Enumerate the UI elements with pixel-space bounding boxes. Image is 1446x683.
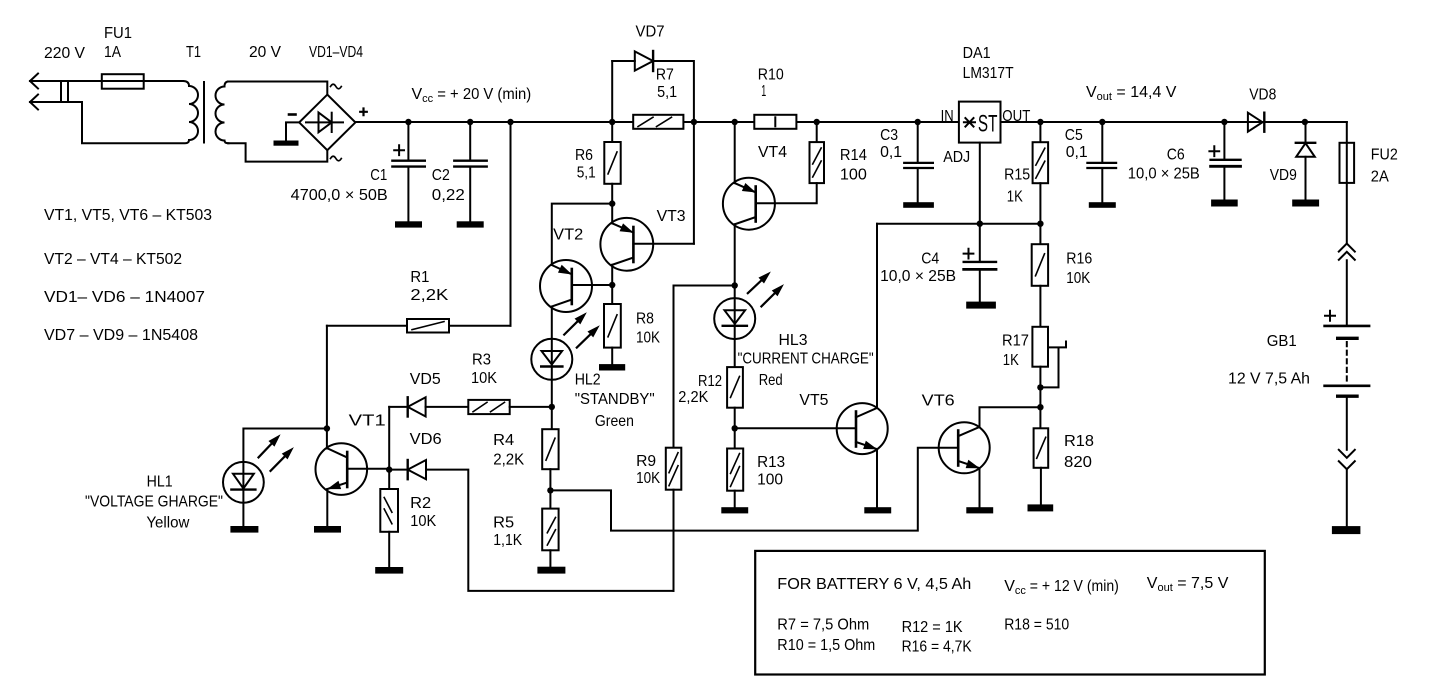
diode VD6 [408,460,426,479]
wire: R14 top lead [816,122,818,142]
svg-text:VD7 – VD9 – 1N5408: VD7 – VD9 – 1N5408 [44,327,198,344]
svg-text:IN: IN [941,108,954,125]
fuse FU2 [1340,143,1355,183]
wire: VD5-VD6 vertical [388,407,390,470]
capacitor C1 [407,122,409,160]
resistor R13 [734,428,736,448]
svg-text:1A: 1A [104,44,121,61]
wire: R8 bottom lead [611,348,613,366]
svg-text:OUT: OUT [1002,108,1030,125]
capacitor C3 [917,122,919,162]
resistor R8 [604,304,621,348]
transistor VT2 [540,260,612,339]
diode VD5 [408,397,426,416]
svg-text:10K: 10K [410,513,436,530]
svg-text:100: 100 [840,167,867,184]
svg-text:10,0 × 25B: 10,0 × 25B [1128,166,1200,183]
node R1/VT1/HL1 [324,425,330,431]
note box [755,551,1265,675]
ground C6 [1212,201,1237,206]
svg-text:R13: R13 [757,454,785,471]
svg-text:VD1– VD6 – 1N4007: VD1– VD6 – 1N4007 [44,289,205,306]
svg-text:R6: R6 [575,147,593,164]
ground bridge [275,142,298,145]
resistor R3 [468,400,509,414]
capacitor C6 [1223,122,1225,159]
svg-text:R17: R17 [1002,332,1029,349]
capacitor C5 [1101,122,1103,162]
resistor R7 [633,115,683,129]
ground HL1 [231,527,257,532]
fuse FU1 [102,74,144,89]
svg-text:R7 = 7,5 Ohm: R7 = 7,5 Ohm [777,617,869,634]
wire: R12 bottom lead [734,408,736,429]
wire: rail corner down to FU2 [1346,122,1348,244]
svg-text:FU1: FU1 [104,25,132,42]
regulator DA1 LM317T [959,102,1001,143]
transformer T1 primary winding [183,81,198,143]
wire: R3 to node [510,406,552,408]
node C3 [915,119,921,125]
svg-text:R14: R14 [840,147,867,164]
node R14 [814,119,820,125]
node R6/VD7 [609,119,615,125]
led HL2 [531,314,598,407]
svg-text:10,0 × 25B: 10,0 × 25B [880,268,956,285]
svg-text:10K: 10K [1066,270,1090,287]
ground C2 [458,222,483,226]
arrow mains top [30,74,38,89]
node HL2/R3/R4 [549,404,555,410]
svg-text:Red: Red [759,372,783,389]
svg-text:VD5: VD5 [410,371,441,388]
svg-text:T1: T1 [186,44,201,61]
svg-text:100: 100 [757,472,783,489]
wire: battery minus to ground [1346,469,1348,527]
ground GB1 [1333,527,1360,533]
wire: VT3 base riser [693,122,695,244]
node R7/VD7 right [691,119,697,125]
svg-text:"CURRENT CHARGE": "CURRENT CHARGE" [738,351,874,368]
node VT4 collector / HL3 / R9 branch [732,282,738,288]
svg-text:Yellow: Yellow [146,515,189,532]
svg-text:R1: R1 [410,269,429,286]
svg-text:C2: C2 [432,167,450,184]
node VT2/VT3 emitters [609,200,615,206]
svg-text:HL2: HL2 [575,372,601,389]
wire: R6 bottom lead [611,184,613,204]
wire: R1 right lead [449,325,511,327]
wire: VD5 row [389,406,408,408]
wire: +Vcc rail [355,121,1346,123]
resistor R15 [1039,122,1041,142]
svg-text:"STANDBY": "STANDBY" [575,391,655,408]
resistor R16 [1039,224,1041,245]
svg-text:ADJ: ADJ [943,149,970,166]
svg-text:VT5: VT5 [799,392,828,409]
svg-text:R18 = 510: R18 = 510 [1004,617,1069,634]
ground R2 [376,568,402,573]
svg-text:0,1: 0,1 [880,144,902,161]
node VT6 collector [1037,404,1043,410]
wire: R8 top lead [611,285,613,304]
wire: R17 bottom lead [1039,367,1041,429]
node R4/R5 [547,487,553,493]
wire: mains bottom lead [30,102,183,143]
svg-text:R7: R7 [656,67,674,84]
wire: VD7 branch left [611,61,613,122]
svg-text:10K: 10K [471,370,497,387]
ground C5 [1090,203,1115,207]
transistor VT5 [837,403,888,508]
svg-text:R12 = 1K: R12 = 1K [902,619,963,636]
transformer T1 core [203,82,205,143]
connector chevrons bottom [1339,450,1355,469]
node C6 [1221,119,1227,125]
wire: node to VT5 base [735,427,856,429]
node ADJ/R15/R16 [1037,221,1043,227]
node C2 [467,119,473,125]
wire: mains top lead [30,80,183,82]
svg-text:1K: 1K [1003,352,1019,369]
wire: VD6 right to bottom rail [426,470,674,591]
ac mark bottom [331,156,342,161]
svg-text:R9: R9 [636,453,656,470]
ac mark top [331,84,342,89]
svg-text:R3: R3 [472,352,491,369]
svg-text:10K: 10K [636,470,660,487]
arrow mains bottom [30,95,38,110]
wire: emitter node to VT2 [552,204,612,265]
ground R8 [600,365,624,369]
node ADJ/C4 [977,221,983,227]
minus sign [289,113,296,116]
bridge rectifier VD1-VD4 [299,95,355,151]
trimmer resistor R17 [1032,327,1066,388]
svg-text:ST: ST [978,110,998,137]
ground C4 [967,303,995,308]
ground C3 [904,203,933,207]
svg-text:VD1–VD4: VD1–VD4 [309,44,363,61]
svg-text:C6: C6 [1167,147,1185,164]
wire: VD5 to R3 [426,406,469,408]
svg-text:R2: R2 [410,495,431,512]
wire: rail down to R1 [510,122,512,326]
svg-text:220 V: 220 V [44,45,85,62]
wire: VT5 collector riser [876,224,878,408]
svg-text:R10 = 1,5 Ohm: R10 = 1,5 Ohm [777,637,875,654]
svg-text:R15: R15 [1004,167,1030,184]
transistor VT3 [600,218,694,285]
svg-text:5,1: 5,1 [577,165,596,182]
node VT4 emitter [732,119,738,125]
svg-text:Green: Green [595,413,634,430]
svg-text:R8: R8 [636,310,654,327]
svg-text:10K: 10K [636,330,660,347]
wire: VT3 emitter lead [611,204,613,224]
diode VD9 [1296,122,1315,201]
svg-text:R5: R5 [493,514,514,531]
wire: R1 left lead [327,325,407,327]
svg-text:VD7: VD7 [636,23,665,40]
wire: R4/R5 node to VT6 base [550,448,958,531]
svg-text:VT1: VT1 [349,413,386,430]
wire: ADJ node rail [877,223,1040,225]
resistor R14 [810,142,825,183]
svg-text:12 V 7,5 Ah: 12 V 7,5 Ah [1228,371,1310,388]
ground R18 [1029,505,1053,510]
svg-text:FU2: FU2 [1371,147,1398,164]
transformer T1 secondary winding [216,82,229,144]
svg-text:DA1: DA1 [963,45,991,62]
wire: R1 to VT1 collector [326,326,328,449]
svg-text:VT1, VT5, VT6 – KT503: VT1, VT5, VT6 – KT503 [44,207,212,224]
svg-text:"VOLTAGE GHARGE": "VOLTAGE GHARGE" [85,494,223,511]
svg-text:VT4: VT4 [758,144,787,161]
transistor VT6 [939,422,990,508]
svg-text:C5: C5 [1065,127,1083,144]
ground VT1 [315,527,340,532]
svg-text:HL3: HL3 [779,332,808,349]
resistor R1 [407,319,449,333]
diode VD8 [1248,113,1264,132]
ground R5 [538,568,564,573]
svg-text:R10: R10 [758,67,784,84]
plus sign [360,109,367,116]
led HL1 [223,436,293,528]
svg-text:1,1K: 1,1K [493,532,522,549]
capacitor C2 [469,122,471,160]
wire: secondary top to bridge [228,82,327,95]
wire: R2 bottom lead [388,532,390,568]
resistor R10 [754,115,796,129]
capacitor C4 [979,224,981,261]
ground R13 [722,508,747,512]
transistor VT1 [316,443,390,527]
svg-text:1: 1 [761,83,766,100]
svg-text:VD8: VD8 [1249,87,1276,104]
wire: VT4 emitter riser [734,122,736,183]
svg-text:VT6: VT6 [922,392,955,409]
node R12/R13/VT5 base [732,425,738,431]
svg-text:2,2K: 2,2K [410,287,448,304]
battery GB1 [1325,311,1370,450]
node C1 [405,119,411,125]
resistor R4 [551,407,553,429]
svg-text:HL1: HL1 [147,474,173,491]
wire: R14 bottom to VT4 base [756,183,817,203]
wire: R9 bottom lead [673,490,675,591]
svg-text:VT2: VT2 [553,227,583,244]
plug contact bars [60,83,62,101]
svg-text:2,2K: 2,2K [678,389,708,406]
resistor R9 [666,448,682,490]
svg-text:GB1: GB1 [1267,333,1297,350]
svg-text:2A: 2A [1371,169,1389,186]
wire: VT1 base node to VD6 [389,469,408,471]
svg-text:R12: R12 [698,373,722,390]
transistor VT4 [723,178,775,286]
ground VD9 [1293,201,1318,206]
wire: VD7 anode lead [612,60,635,62]
svg-text:0,1: 0,1 [1066,144,1088,161]
wire: VT6 collector link [980,407,1041,427]
svg-text:2,2K: 2,2K [493,452,524,469]
resistor R18 [1034,428,1049,468]
wire: to battery [1346,260,1348,325]
led HL3 [714,273,783,367]
svg-text:5,1: 5,1 [657,84,677,101]
svg-text:R18: R18 [1064,433,1094,450]
node VD9 [1302,119,1308,125]
resistor R5 [549,490,551,508]
svg-text:20 V: 20 V [249,44,281,61]
resistor R6 [604,142,620,184]
wire: branch to HL1 [243,429,327,463]
resistor R12 [727,367,743,408]
svg-text:4700,0 × 50B: 4700,0 × 50B [291,187,388,204]
svg-text:VT2 – VT4 – KT502: VT2 – VT4 – KT502 [44,251,182,268]
diode VD7 [635,51,653,71]
wire: branch to R9 [674,286,735,448]
wire: R2 top lead [388,470,390,489]
node R17 tap [1037,384,1043,390]
node C5 [1099,119,1105,125]
wire: R6 top lead [611,122,613,142]
svg-text:LM317T: LM317T [963,65,1014,82]
svg-text:1K: 1K [1007,189,1023,206]
wire: DA1 ADJ lead [979,143,981,224]
resistor R2 [380,489,398,532]
ground C1 [396,222,421,226]
ground VT5 [865,508,890,512]
svg-text:0,22: 0,22 [432,187,465,204]
svg-text:C1: C1 [370,167,387,184]
node VT2 base / VT3 collector / R8 [609,282,615,288]
connector chevrons top [1339,244,1355,260]
node VT1/VD6/R2 [386,466,392,472]
svg-text:VD6: VD6 [410,431,442,448]
wire: bridge minus to ground [286,122,299,141]
node R15 [1037,119,1043,125]
svg-text:R4: R4 [493,432,514,449]
svg-text:VD9: VD9 [1270,167,1297,184]
svg-text:R16 = 4,7K: R16 = 4,7K [902,639,972,656]
wire: secondary bottom to bridge [228,143,327,161]
svg-text:C3: C3 [880,127,898,144]
svg-text:FOR BATTERY 6 V, 4,5 Ah: FOR BATTERY 6 V, 4,5 Ah [777,576,971,593]
rail junction nodes [405,119,1308,125]
svg-text:VT3: VT3 [657,208,686,225]
node R1 riser [507,119,513,125]
svg-text:C4: C4 [921,250,939,267]
svg-text:R16: R16 [1066,250,1092,267]
wire: VD7 cathode to right branch [653,61,694,122]
svg-text:820: 820 [1064,454,1092,471]
ground VT6 [967,508,992,512]
